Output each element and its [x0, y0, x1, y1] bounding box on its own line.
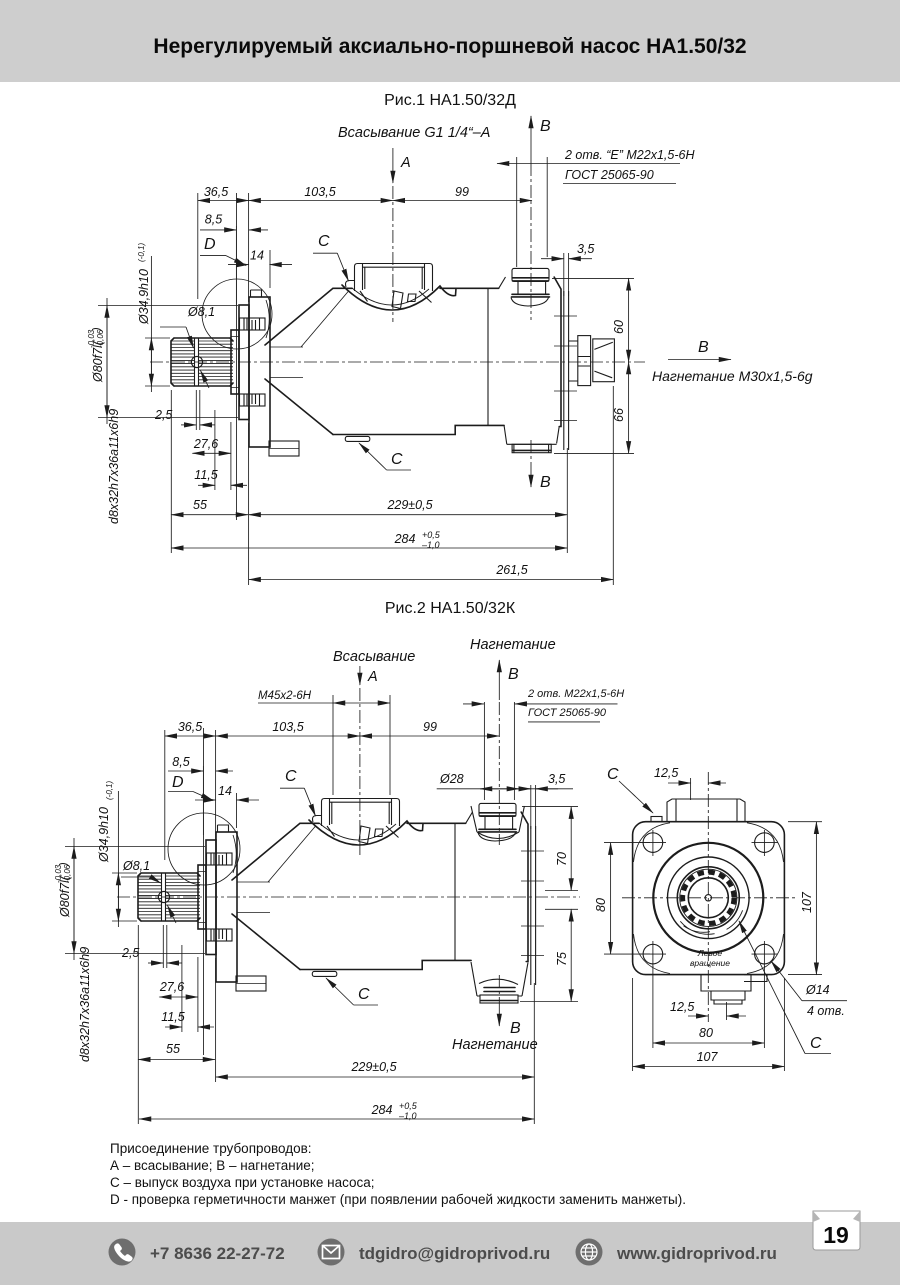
svg-text:C: C — [285, 768, 297, 785]
svg-text:D: D — [204, 236, 216, 253]
svg-text:Всасывание G1 1/4“–А: Всасывание G1 1/4“–А — [338, 125, 490, 141]
svg-text:80: 80 — [594, 898, 608, 912]
svg-text:Левое: Левое — [697, 948, 723, 958]
svg-text:107: 107 — [697, 1050, 719, 1064]
svg-text:Ø14: Ø14 — [805, 983, 830, 997]
svg-text:4 отв.: 4 отв. — [807, 1004, 845, 1018]
svg-text:Ø8,1: Ø8,1 — [122, 859, 150, 873]
svg-text:C: C — [358, 986, 370, 1003]
svg-text:В: В — [510, 1020, 521, 1037]
svg-text:75: 75 — [555, 952, 569, 966]
svg-text:Нагнетание М30х1,5-6g: Нагнетание М30х1,5-6g — [652, 368, 813, 384]
svg-text:В: В — [540, 474, 551, 491]
svg-text:www.gidroprivod.ru: www.gidroprivod.ru — [616, 1244, 777, 1263]
svg-text:55: 55 — [193, 498, 207, 512]
svg-text:2,5: 2,5 — [121, 946, 139, 960]
svg-text:+7 8636 22-27-72: +7 8636 22-27-72 — [150, 1244, 285, 1263]
svg-text:3,5: 3,5 — [548, 772, 565, 786]
svg-text:Нерегулируемый аксиально-поршн: Нерегулируемый аксиально-поршневой насос… — [153, 35, 746, 58]
svg-text:tdgidro@gidroprivod.ru: tdgidro@gidroprivod.ru — [359, 1244, 550, 1263]
svg-text:8,5: 8,5 — [205, 213, 222, 227]
svg-text:С – выпуск воздуха при установ: С – выпуск воздуха при установке насоса; — [110, 1175, 375, 1190]
svg-text:ГОСТ 25065-90: ГОСТ 25065-90 — [565, 168, 654, 182]
svg-text:А: А — [400, 155, 411, 171]
svg-text:d8x32h7x36a11x6h9: d8x32h7x36a11x6h9 — [107, 409, 121, 524]
svg-text:11,5: 11,5 — [194, 468, 217, 482]
svg-text:229±0,5: 229±0,5 — [386, 498, 432, 512]
svg-text:-0,03: -0,03 — [87, 329, 96, 348]
svg-text:99: 99 — [423, 720, 437, 734]
svg-text:12,5: 12,5 — [654, 766, 678, 780]
svg-text:66: 66 — [612, 408, 626, 422]
svg-text:14: 14 — [250, 249, 264, 263]
svg-text:вращение: вращение — [690, 958, 730, 968]
svg-text:+0,5: +0,5 — [399, 1101, 418, 1111]
svg-text:Рис.2 НА1.50/32К: Рис.2 НА1.50/32К — [385, 600, 516, 617]
svg-text:D: D — [172, 774, 184, 791]
svg-text:(-0,1): (-0,1) — [137, 243, 146, 262]
svg-text:2 отв. “Е” М22х1,5-6Н: 2 отв. “Е” М22х1,5-6Н — [564, 148, 695, 162]
svg-text:C: C — [810, 1035, 822, 1052]
svg-text:Присоединение трубопроводов:: Присоединение трубопроводов: — [110, 1141, 312, 1156]
svg-text:-0,06: -0,06 — [96, 329, 105, 348]
svg-text:284: 284 — [394, 532, 416, 546]
svg-text:В: В — [698, 339, 709, 356]
svg-text:М45х2-6Н: М45х2-6Н — [258, 690, 312, 702]
svg-text:А – всасывание; В – нагнетание: А – всасывание; В – нагнетание; — [110, 1158, 315, 1173]
svg-text:C: C — [318, 233, 330, 250]
svg-text:Нагнетание: Нагнетание — [470, 637, 556, 653]
svg-text:229±0,5: 229±0,5 — [350, 1060, 396, 1074]
svg-text:-0,03: -0,03 — [54, 864, 63, 883]
svg-text:284: 284 — [371, 1103, 393, 1117]
svg-text:–1,0: –1,0 — [421, 540, 440, 550]
svg-text:Ø28: Ø28 — [439, 772, 464, 786]
svg-text:80: 80 — [699, 1026, 713, 1040]
svg-text:2 отв. М22х1,5-6Н: 2 отв. М22х1,5-6Н — [527, 688, 624, 700]
svg-text:11,5: 11,5 — [161, 1010, 184, 1024]
svg-text:261,5: 261,5 — [495, 563, 527, 577]
svg-text:12,5: 12,5 — [670, 1000, 694, 1014]
svg-text:19: 19 — [823, 1222, 849, 1248]
svg-text:60: 60 — [612, 320, 626, 334]
svg-text:14: 14 — [218, 784, 232, 798]
svg-text:–1,0: –1,0 — [398, 1111, 417, 1121]
svg-text:d8x32h7x36a11x6h9: d8x32h7x36a11x6h9 — [78, 947, 92, 1062]
svg-text:27,6: 27,6 — [159, 980, 184, 994]
svg-text:В: В — [508, 666, 519, 683]
svg-text:А: А — [367, 669, 378, 685]
svg-text:Всасывание: Всасывание — [333, 649, 415, 665]
svg-text:C: C — [391, 451, 403, 468]
svg-text:C: C — [607, 766, 619, 783]
svg-text:99: 99 — [455, 185, 469, 199]
svg-text:8,5: 8,5 — [172, 755, 189, 769]
svg-text:Ø34,9h10: Ø34,9h10 — [97, 807, 111, 863]
svg-text:2,5: 2,5 — [154, 408, 172, 422]
svg-text:D - проверка герметичности ман: D - проверка герметичности манжет (при п… — [110, 1192, 686, 1207]
svg-text:В: В — [540, 118, 551, 135]
svg-text:36,5: 36,5 — [204, 185, 228, 199]
svg-text:(-0,1): (-0,1) — [105, 781, 114, 800]
svg-text:3,5: 3,5 — [577, 242, 594, 256]
svg-text:107: 107 — [800, 891, 814, 913]
svg-text:27,6: 27,6 — [193, 437, 218, 451]
svg-text:Нагнетание: Нагнетание — [452, 1037, 538, 1053]
svg-text:Ø34,9h10: Ø34,9h10 — [137, 269, 151, 325]
svg-text:55: 55 — [166, 1042, 180, 1056]
svg-text:70: 70 — [555, 852, 569, 866]
svg-text:36,5: 36,5 — [178, 720, 202, 734]
svg-text:103,5: 103,5 — [272, 720, 303, 734]
svg-text:103,5: 103,5 — [304, 185, 335, 199]
svg-text:-0,06: -0,06 — [63, 864, 72, 883]
svg-text:Ø8,1: Ø8,1 — [187, 305, 215, 319]
svg-text:Рис.1 НА1.50/32Д: Рис.1 НА1.50/32Д — [384, 92, 516, 109]
svg-text:ГОСТ 25065-90: ГОСТ 25065-90 — [528, 707, 607, 719]
svg-text:+0,5: +0,5 — [422, 530, 441, 540]
